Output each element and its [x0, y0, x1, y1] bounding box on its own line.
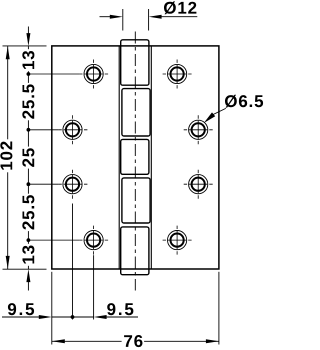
dim Ø12 extension line right	[148, 9, 150, 31]
dim Ø6.5 label	[225, 95, 263, 108]
dim 102 extension line top	[3, 45, 47, 47]
hinge plate outline	[52, 46, 219, 269]
hole A1 (left leaf, row1, inner col)	[84, 60, 103, 89]
bottom extension line plate left edge	[51, 272, 53, 345]
dim Ø12 extension line left	[122, 9, 124, 31]
dim Ø6.5 leader arrow	[204, 108, 226, 123]
chain dot row1	[27, 72, 31, 76]
chain top outside arrow	[27, 27, 29, 35]
chain dot bottom	[71, 315, 75, 319]
dim 102 line	[6, 46, 10, 269]
dim Ø12 label	[164, 1, 196, 14]
chain dot row2	[27, 128, 31, 132]
dim 76 label	[122, 334, 145, 348]
row2 extension line	[28, 129, 58, 131]
knuckle segment 2	[122, 89, 150, 136]
bottom extension line hole col outer	[72, 204, 74, 320]
chain label 13 top	[22, 49, 36, 71]
chain label 25.5 upper	[22, 83, 36, 120]
dim 102 extension line bottom	[3, 268, 47, 270]
row3 extension line	[28, 183, 58, 185]
dim 9.5 right label	[107, 303, 133, 315]
knuckle segment 5 (bottom cap)	[121, 227, 149, 275]
right leaf cut edge	[150, 46, 152, 269]
chain label 25.5 lower	[22, 194, 36, 231]
centerline (pin axis)	[134, 32, 136, 291]
hole A2 (left leaf, row2, outer col)	[63, 115, 82, 144]
bottom extension line hole col inner	[93, 255, 95, 319]
knuckle segment 1 (top cap)	[121, 40, 149, 85]
dim 9.5 left label	[8, 303, 34, 315]
dim 76 line	[52, 339, 219, 343]
hole B2 (right leaf, row2, outer col)	[184, 115, 213, 144]
hole A3 (left leaf, row3, outer col)	[63, 170, 82, 199]
row4 extension line	[28, 239, 79, 241]
dim 102 label	[0, 139, 14, 172]
hole B3 (right leaf, row3, outer col)	[184, 170, 213, 199]
knuckle segment 3	[121, 139, 149, 174]
row1 extension line	[28, 73, 79, 75]
dim Ø12 left arrow	[100, 15, 123, 19]
left leaf cut edge	[118, 46, 120, 269]
hole A4 (left leaf, row4, inner col)	[84, 226, 103, 255]
chain label 13 bottom	[22, 244, 36, 266]
hole B1 (right leaf, row1, inner col)	[163, 60, 192, 89]
knuckle segment 4	[122, 178, 150, 223]
dim 9.5 left	[2, 315, 94, 319]
dim 9.5 right	[94, 315, 138, 319]
chain label 25	[22, 147, 36, 169]
hole B4 (right leaf, row4, inner col)	[163, 226, 192, 255]
chain dot row3	[27, 182, 31, 186]
chain bottom outside arrow	[27, 281, 29, 291]
bottom extension line plate right edge	[218, 272, 220, 345]
dim Ø12 right arrow	[149, 15, 198, 19]
left chain dimension line	[26, 27, 30, 291]
chain dot row4	[27, 238, 31, 242]
